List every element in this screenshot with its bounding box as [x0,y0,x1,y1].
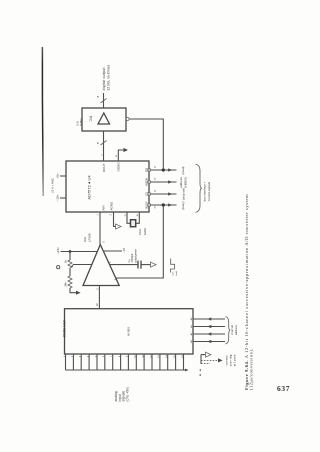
svg-text:digital output: digital output [102,67,106,90]
svg-text:−15v: −15v [56,194,60,201]
address pin A1 wire [193,326,225,328]
brace bus interface [196,164,202,213]
svg-text:(12μs/conversion).: (12μs/conversion). [249,348,254,390]
address pin A3 wire [193,341,225,343]
arrowhead CS [168,192,172,195]
connector end arrow [185,369,189,372]
wire node to pot [69,252,71,261]
analog ground symbol (open arrow) at AGND [116,224,122,229]
wire -15 stub [103,250,122,252]
pot wiper arrow [72,265,74,267]
svg-text:+5v: +5v [56,173,60,179]
svg-text:HBEN: HBEN [144,178,148,186]
legend tick marks [200,369,201,371]
svg-text:637: 637 [277,384,290,393]
note circle [57,266,60,269]
wire cap to ground [141,264,151,266]
arrowhead A1 [207,325,211,328]
svg-text:HI-506: HI-506 [127,327,131,336]
pin CS marker square [148,193,150,195]
address pin A2 wire [193,333,225,335]
svg-text:(0 to +5v): (0 to +5v) [125,387,129,401]
svg-text:address: address [234,324,238,335]
pin RD marker square [148,169,150,171]
wire buffer output [103,93,105,108]
wire HBEN stub [150,181,176,183]
arrowhead A3 [207,340,211,343]
scan streak artifact [41,47,44,196]
legend digital ground (filled arrow) [218,358,223,362]
wire mux to S/H input [98,286,100,309]
node junction on BUSY [162,203,165,206]
svg-text:RD: RD [144,168,148,172]
legend dashed wire [201,359,218,361]
address pin A0 wire [193,318,225,320]
svg-text:control signals: control signals [207,181,211,201]
svg-text:+15v: +15v [56,247,60,254]
analog ground symbol (open arrow) at cap [151,262,157,267]
crystal X1 circuit: pin CLK1 stub [127,212,131,223]
wire +15 supply [61,251,98,253]
node junction on RD [162,168,165,171]
svg-text:at 1 point: at 1 point [232,355,236,367]
svg-text:1000pF: 1000pF [130,253,134,262]
svg-text:12 bits, on 8 lines: 12 bits, on 8 lines [107,64,111,90]
legend bar wire [200,355,202,364]
buffer triangle [98,113,110,124]
IC U1 ADC AD7572 [66,161,149,212]
wire 24k to ground [70,288,76,293]
svg-text:(busy): (busy) [181,201,185,209]
svg-text:AD7572 ● U4: AD7572 ● U4 [86,175,91,200]
OE bubble [126,118,129,121]
wire pot to 24k [69,268,71,276]
potentiometer R1 1k [68,260,72,268]
svg-text:±5 A + ANC: ±5 A + ANC [51,178,55,193]
pin stub +5V [60,175,66,177]
buffer U2 '244 box [82,108,126,131]
wire RD stub [150,169,176,171]
wire OE to RD node [129,119,163,169]
wire S/H logic from BUSY node [116,206,164,278]
pin BUSY marker square [148,204,150,206]
svg-text:DOUT: DOUT [102,163,106,172]
IC U4 CMOS MUX box [65,309,194,354]
bus slash on DOUT wire [101,141,107,146]
svg-text:BUSY: BUSY [144,201,148,209]
input pin numbers [64,355,184,358]
ground (filled arrow) [76,291,81,295]
brace channel address [226,317,231,345]
svg-text:sam: sam [172,271,174,275]
digital ground symbol (filled arrow) at DGND [124,148,129,152]
arrowhead RD [168,168,172,171]
legend analog ground (open arrow) [206,352,211,357]
svg-text:polystyrene: polystyrene [134,249,138,263]
svg-text:(HBEN): (HBEN) [183,177,187,187]
svg-text:(read): (read) [181,166,185,174]
pin stub -15V [60,197,66,199]
svg-text:XTAL: XTAL [138,228,142,235]
input connector line [66,369,187,371]
pin AIN wire [99,212,101,245]
svg-text:−15: −15 [122,248,126,253]
pin HBEN marker square [148,181,150,183]
arrowhead HBEN [168,180,172,183]
svg-text:buffer: buffer [79,118,83,126]
node junction +15 [69,250,72,253]
arrowhead A2 [207,332,211,335]
pin DOUT wire to buffer [103,131,105,161]
svg-text:DGND: DGND [117,162,121,172]
16 input pin stubs [66,354,184,370]
svg-text:1MHz: 1MHz [143,227,147,235]
pin AGND wire [114,212,116,227]
wire wiper to offset pin [73,264,92,266]
resistor R2 24k [68,276,72,288]
wire hold cap [110,264,138,266]
legend analog gnd wire [201,354,206,356]
svg-text:'244: '244 [89,115,93,121]
arrowhead BUSY [168,203,172,206]
svg-text:AIN: AIN [102,205,106,210]
op-amp U3 S/H LF398 triangle [83,245,119,286]
bus slash on output [101,99,107,104]
svg-text:AGND: AGND [109,201,113,211]
svg-text:Cₘ: Cₘ [127,259,131,263]
svg-text:CMOS MUX: CMOS MUX [63,319,67,337]
svg-text:LF398: LF398 [88,233,92,242]
crystal X1 body [131,220,136,227]
wire CS stub [150,193,176,195]
capacitor C1 plates [137,261,139,269]
arrowhead A0 [207,317,211,320]
svg-text:S/H: S/H [83,237,87,242]
svg-text:(chip sel): (chip sel) [182,188,186,200]
sample-hold waveform glyph [170,259,174,273]
svg-text:CS: CS [144,192,148,196]
svg-text:24k: 24k [64,282,68,287]
pin DGND wire [118,150,123,161]
pin CLK2 stub [136,212,140,223]
wire BUSY stub [150,204,176,206]
